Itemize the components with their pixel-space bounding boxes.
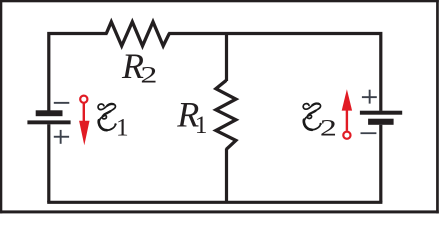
label R2 [121, 46, 157, 88]
emf arrow E2 [342, 89, 352, 139]
wire right branch lower [379, 125, 382, 203]
label plus E1 [54, 130, 69, 144]
svg-text:2: 2 [320, 116, 337, 142]
label minus E1 [54, 102, 70, 104]
wire bottom segment [47, 201, 382, 204]
label plus E2 [362, 90, 377, 104]
label E2 [303, 103, 337, 141]
svg-text:2: 2 [140, 62, 157, 88]
wire middle branch upper [225, 32, 228, 81]
label E1 [98, 104, 129, 142]
wire left branch upper [49, 34, 108, 111]
emf arrow E1 [79, 96, 89, 146]
wire top segment right of R2 [168, 34, 381, 111]
wire left branch lower [47, 124, 50, 202]
battery E1 [27, 110, 70, 124]
battery E2 [360, 111, 402, 125]
label minus E2 [361, 132, 377, 134]
svg-text:1: 1 [195, 110, 208, 139]
svg-text:1: 1 [116, 113, 129, 142]
label R1 [176, 94, 207, 139]
wire middle branch lower [225, 149, 228, 203]
resistor R2 [106, 22, 169, 46]
resistor R1 [216, 80, 236, 149]
